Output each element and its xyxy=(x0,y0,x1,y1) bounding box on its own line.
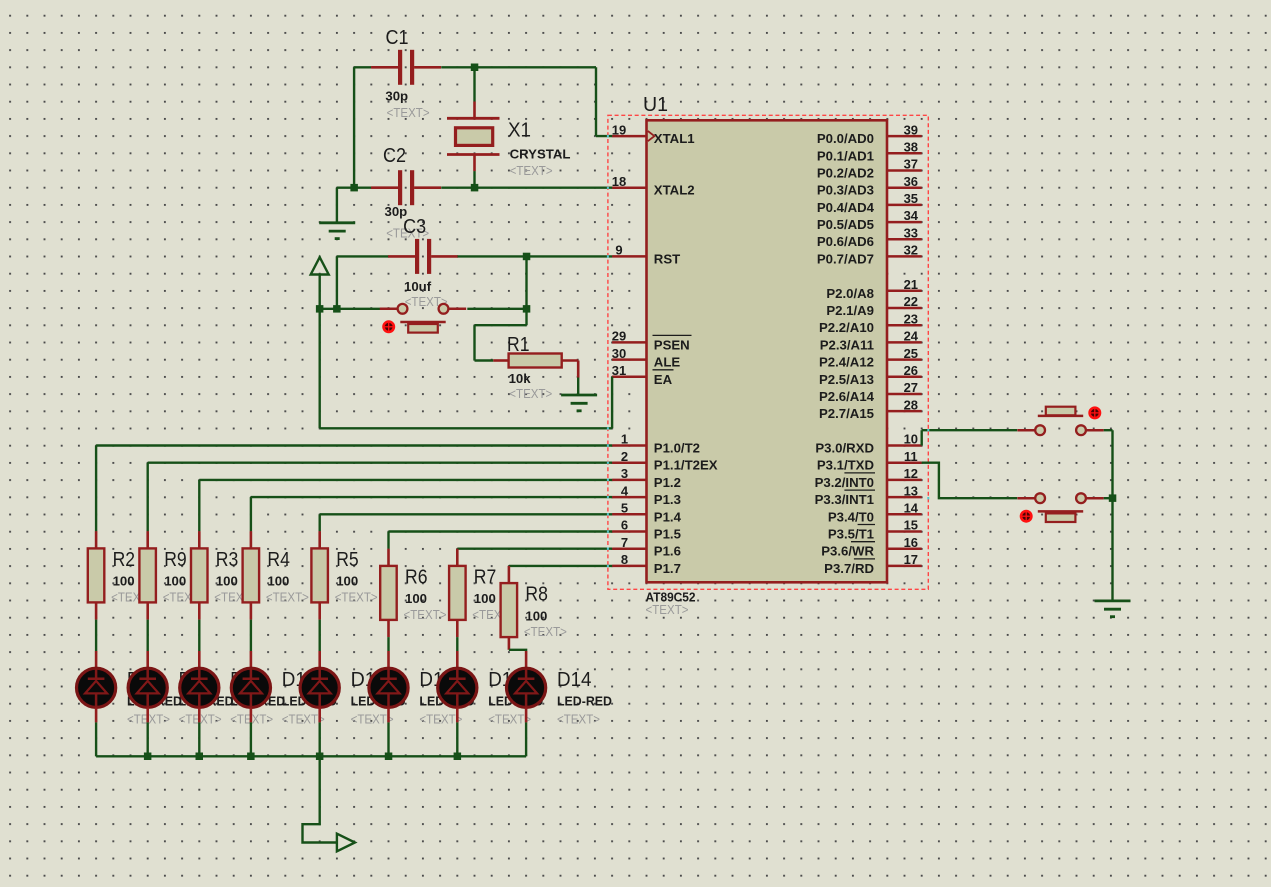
svg-text:38: 38 xyxy=(904,140,918,155)
svg-text:RST: RST xyxy=(654,251,680,266)
svg-text:10: 10 xyxy=(904,432,918,447)
svg-text:21: 21 xyxy=(904,277,918,292)
svg-text:<TEXT>: <TEXT> xyxy=(419,713,462,727)
svg-text:P1.2: P1.2 xyxy=(654,475,681,490)
svg-text:R3: R3 xyxy=(216,549,239,571)
svg-text:<TEXT>: <TEXT> xyxy=(404,608,447,622)
svg-text:P3.6/WR: P3.6/WR xyxy=(821,544,874,559)
svg-text:29: 29 xyxy=(612,329,626,344)
svg-text:1: 1 xyxy=(621,432,628,447)
svg-text:100: 100 xyxy=(113,574,135,589)
svg-text:30: 30 xyxy=(612,346,626,361)
svg-text:P1.3: P1.3 xyxy=(654,492,681,507)
svg-text:P3.7/RD: P3.7/RD xyxy=(824,561,874,576)
svg-text:<TEXT>: <TEXT> xyxy=(509,387,552,401)
svg-text:P3.3/INT1: P3.3/INT1 xyxy=(815,492,874,507)
svg-text:P1.5: P1.5 xyxy=(654,527,681,542)
svg-text:R5: R5 xyxy=(336,549,359,571)
svg-text:P3.4/T0: P3.4/T0 xyxy=(828,509,874,524)
svg-text:<TEXT>: <TEXT> xyxy=(488,713,531,727)
svg-text:R9: R9 xyxy=(164,549,187,571)
svg-text:LED-RED: LED-RED xyxy=(557,693,612,708)
svg-text:P0.4/AD4: P0.4/AD4 xyxy=(817,200,875,215)
svg-text:4: 4 xyxy=(621,483,629,498)
svg-text:R4: R4 xyxy=(267,549,290,571)
svg-text:100: 100 xyxy=(405,591,427,606)
svg-text:8: 8 xyxy=(621,552,628,567)
svg-text:ALE: ALE xyxy=(654,355,681,370)
svg-text:PSEN: PSEN xyxy=(654,337,690,352)
svg-text:33: 33 xyxy=(904,225,918,240)
svg-text:D14: D14 xyxy=(557,669,592,691)
svg-text:P0.2/AD2: P0.2/AD2 xyxy=(817,166,874,181)
svg-text:P3.5/T1: P3.5/T1 xyxy=(828,527,874,542)
svg-text:19: 19 xyxy=(612,122,626,137)
svg-text:XTAL1: XTAL1 xyxy=(654,131,695,146)
svg-text:<TEXT>: <TEXT> xyxy=(510,164,553,178)
svg-text:R2: R2 xyxy=(113,549,136,571)
svg-text:6: 6 xyxy=(621,518,628,533)
svg-text:P1.4: P1.4 xyxy=(654,509,682,524)
svg-text:R7: R7 xyxy=(474,567,497,589)
svg-text:35: 35 xyxy=(904,191,918,206)
svg-text:P2.0/A8: P2.0/A8 xyxy=(826,286,874,301)
svg-text:16: 16 xyxy=(904,535,918,550)
svg-text:XTAL2: XTAL2 xyxy=(654,183,695,198)
svg-text:P1.1/T2EX: P1.1/T2EX xyxy=(654,458,718,473)
svg-text:23: 23 xyxy=(904,311,918,326)
svg-text:28: 28 xyxy=(904,397,918,412)
svg-text:37: 37 xyxy=(904,157,918,172)
svg-text:3: 3 xyxy=(621,466,628,481)
svg-text:100: 100 xyxy=(336,574,358,589)
svg-text:<TEXT>: <TEXT> xyxy=(524,625,567,639)
svg-text:<TEXT>: <TEXT> xyxy=(646,603,689,617)
svg-text:<TEXT>: <TEXT> xyxy=(282,713,325,727)
svg-text:P0.5/AD5: P0.5/AD5 xyxy=(817,217,874,232)
svg-text:100: 100 xyxy=(474,591,496,606)
svg-text:<TEXT>: <TEXT> xyxy=(335,590,378,604)
svg-text:32: 32 xyxy=(904,243,918,258)
svg-text:<TEXT>: <TEXT> xyxy=(387,106,430,120)
svg-text:C3: C3 xyxy=(403,216,426,238)
svg-text:P2.6/A14: P2.6/A14 xyxy=(819,389,875,404)
svg-text:P3.1/TXD: P3.1/TXD xyxy=(817,458,874,473)
svg-text:P1.6: P1.6 xyxy=(654,544,681,559)
svg-text:C2: C2 xyxy=(383,145,406,167)
svg-text:25: 25 xyxy=(904,346,918,361)
svg-text:CRYSTAL: CRYSTAL xyxy=(510,147,571,162)
svg-text:10uf: 10uf xyxy=(404,279,432,294)
svg-text:34: 34 xyxy=(904,208,919,223)
svg-text:P3.2/INT0: P3.2/INT0 xyxy=(815,475,874,490)
svg-text:27: 27 xyxy=(904,380,918,395)
svg-text:R6: R6 xyxy=(405,567,428,589)
svg-text:17: 17 xyxy=(904,552,918,567)
svg-text:P2.2/A10: P2.2/A10 xyxy=(819,320,874,335)
svg-text:2: 2 xyxy=(621,449,628,464)
svg-text:R1: R1 xyxy=(507,334,530,356)
svg-text:12: 12 xyxy=(904,466,918,481)
svg-text:P0.7/AD7: P0.7/AD7 xyxy=(817,251,874,266)
svg-text:C1: C1 xyxy=(386,27,409,49)
svg-text:22: 22 xyxy=(904,294,918,309)
svg-text:P1.0/T2: P1.0/T2 xyxy=(654,441,700,456)
svg-text:P0.1/AD1: P0.1/AD1 xyxy=(817,148,874,163)
svg-text:36: 36 xyxy=(904,174,918,189)
svg-text:P2.4/A12: P2.4/A12 xyxy=(819,355,874,370)
svg-text:31: 31 xyxy=(612,363,626,378)
svg-text:P1.7: P1.7 xyxy=(654,561,681,576)
svg-text:X1: X1 xyxy=(508,120,531,142)
svg-text:14: 14 xyxy=(904,501,919,516)
svg-text:18: 18 xyxy=(612,174,626,189)
svg-text:39: 39 xyxy=(904,122,918,137)
svg-text:13: 13 xyxy=(904,483,918,498)
svg-text:100: 100 xyxy=(525,608,547,623)
svg-text:P2.7/A15: P2.7/A15 xyxy=(819,406,874,421)
svg-text:30p: 30p xyxy=(385,89,408,104)
svg-text:P0.0/AD0: P0.0/AD0 xyxy=(817,131,874,146)
svg-text:<TEXT>: <TEXT> xyxy=(557,713,600,727)
svg-text:11: 11 xyxy=(904,449,918,464)
svg-text:P0.6/AD6: P0.6/AD6 xyxy=(817,234,874,249)
svg-text:100: 100 xyxy=(216,574,238,589)
svg-text:7: 7 xyxy=(621,535,628,550)
svg-text:EA: EA xyxy=(654,372,673,387)
svg-text:100: 100 xyxy=(164,574,186,589)
svg-text:5: 5 xyxy=(621,501,628,516)
svg-text:R8: R8 xyxy=(525,584,548,606)
svg-text:P2.3/A11: P2.3/A11 xyxy=(820,337,874,352)
svg-text:P2.5/A13: P2.5/A13 xyxy=(819,372,874,387)
svg-text:10k: 10k xyxy=(509,371,532,386)
svg-text:24: 24 xyxy=(904,329,919,344)
svg-text:P0.3/AD3: P0.3/AD3 xyxy=(817,183,874,198)
svg-text:<TEXT>: <TEXT> xyxy=(351,713,394,727)
svg-text:9: 9 xyxy=(615,243,622,258)
svg-text:P2.1/A9: P2.1/A9 xyxy=(826,303,874,318)
svg-text:P3.0/RXD: P3.0/RXD xyxy=(815,441,874,456)
svg-text:26: 26 xyxy=(904,363,918,378)
svg-text:U1: U1 xyxy=(643,94,668,116)
svg-text:15: 15 xyxy=(904,518,918,533)
svg-text:<TEXT>: <TEXT> xyxy=(266,590,309,604)
svg-text:100: 100 xyxy=(267,574,289,589)
